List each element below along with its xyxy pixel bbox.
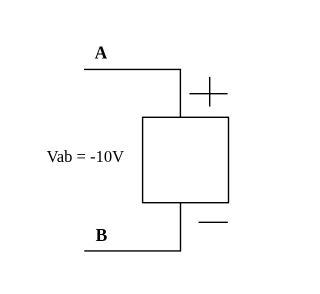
value label Vab = -10V: [47, 147, 125, 166]
plus polarity sign: [190, 77, 228, 107]
svg-text:Vab = -10V: Vab = -10V: [47, 147, 125, 166]
svg-text:A: A: [95, 43, 108, 63]
minus polarity sign: [199, 221, 228, 223]
svg-text:B: B: [96, 225, 108, 245]
wire: [84, 69, 180, 117]
circuit element box: [143, 117, 229, 202]
node B: [96, 225, 108, 245]
node A: [95, 43, 108, 63]
wire: [84, 203, 180, 251]
